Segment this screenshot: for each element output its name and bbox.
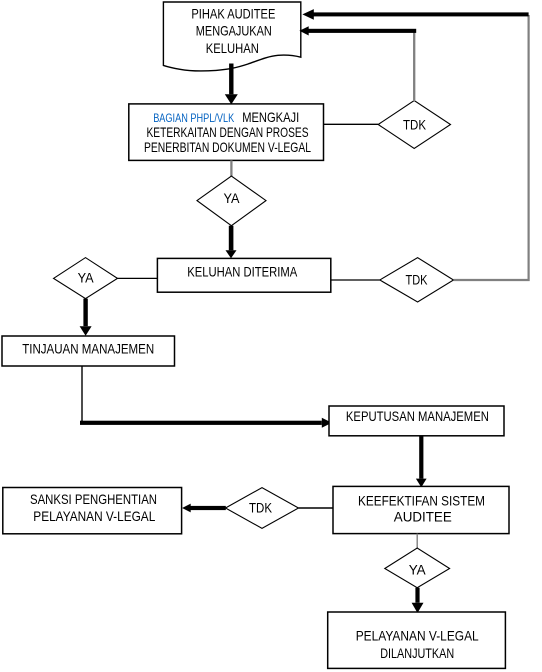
svg-text:KELUHAN DITERIMA: KELUHAN DITERIMA: [187, 263, 298, 279]
arrow: document down to review box (thick): [225, 64, 238, 105]
box: KEPUTUSAN MANAJEMEN: [329, 406, 504, 436]
decision diamond YA1: [197, 176, 266, 226]
svg-text:KEPUTUSAN MANAJEMEN: KEPUTUSAN MANAJEMEN: [346, 408, 489, 424]
arrow: KEPUTUSAN down to KEEFEKTIFAN (thick): [416, 436, 427, 488]
box: SANKSI PENGHENTIAN PELAYANAN V-LEGAL: [3, 488, 182, 534]
decision diamond TDK1: [378, 101, 450, 149]
svg-text:AUDITEE: AUDITEE: [394, 509, 452, 525]
decision diamond YA2: [54, 258, 118, 299]
box: TINJAUAN MANAJEMEN: [2, 336, 175, 366]
arrow: loop back into document, second from top (thick): [299, 26, 416, 35]
svg-text:YA: YA: [78, 269, 95, 285]
decision diamond YA3: [385, 548, 450, 588]
svg-text:YA: YA: [224, 190, 241, 206]
svg-text:KELUHAN: KELUHAN: [206, 40, 259, 56]
wire: KEEFEKTIFAN bottom to YA3 (gray): [416, 534, 418, 548]
box: KEEFEKTIFAN SISTEM AUDITEE: [333, 486, 509, 533]
svg-text:MENGKAJI: MENGKAJI: [242, 109, 299, 125]
wire: TINJAUAN MANAJEMEN bottom down: [81, 366, 83, 422]
svg-text:PENERBITAN DOKUMEN V-LEGAL: PENERBITAN DOKUMEN V-LEGAL: [144, 139, 311, 155]
svg-text:TINJAUAN MANAJEMEN: TINJAUAN MANAJEMEN: [22, 340, 154, 356]
svg-text:PELAYANAN V-LEGAL: PELAYANAN V-LEGAL: [33, 508, 155, 524]
wire: TDK3 to KEEFEKTIFAN box: [299, 507, 334, 509]
svg-text:TDK: TDK: [403, 116, 427, 132]
svg-text:TDK: TDK: [406, 272, 429, 288]
box: PELAYANAN V-LEGAL DILANJUTKAN: [328, 612, 506, 668]
svg-text:KEEFEKTIFAN SISTEM: KEEFEKTIFAN SISTEM: [358, 493, 485, 509]
box: KELUHAN DITERIMA: [157, 258, 330, 292]
wire: TDK2 right loop to top right (gray): [454, 15, 529, 280]
svg-text:PELAYANAN V-LEGAL: PELAYANAN V-LEGAL: [356, 627, 479, 643]
wire: YA2 to KELUHAN DITERIMA: [118, 277, 158, 279]
decision diamond TDK2: [380, 258, 454, 302]
svg-text:DILANJUTKAN: DILANJUTKAN: [380, 645, 454, 661]
arrow: YA1 down to KELUHAN DITERIMA (thick): [226, 226, 237, 259]
arrow: loop back into document, topmost (thick): [302, 9, 528, 20]
wire: KELUHAN DITERIMA to TDK2: [331, 279, 380, 281]
decision diamond TDK3: [226, 488, 299, 529]
svg-text:MENGAJUKAN: MENGAJUKAN: [196, 23, 272, 39]
document shape: PIHAK AUDITEE MENGAJUKAN KELUHAN: [163, 2, 300, 71]
svg-text:SANKSI PENGHENTIAN: SANKSI PENGHENTIAN: [30, 491, 157, 507]
arrow: YA3 down to PELAYANAN box (thick): [412, 588, 424, 613]
wire: TDK1 top up to loop (gray): [413, 31, 415, 101]
arrow: TDK3 to SANKSI box (thick): [182, 504, 226, 513]
wire: review box bottom to YA1 (gray): [230, 160, 232, 176]
svg-text:KETERKAITAN DENGAN PROSES: KETERKAITAN DENGAN PROSES: [147, 124, 309, 140]
svg-text:YA: YA: [409, 561, 427, 577]
box: BAGIAN PHPL/VLK MENGKAJI KETERKAITAN DENGAN PROSES PENERBITAN DOKUMEN V-LEGAL: [129, 104, 324, 160]
wire: review box to TDK1: [324, 123, 378, 125]
arrow: YA2 down to TINJAUAN MANAJEMEN (thick): [80, 299, 92, 336]
svg-text:PIHAK AUDITEE: PIHAK AUDITEE: [191, 6, 275, 22]
svg-text:TDK: TDK: [249, 499, 273, 515]
arrow: across to KEPUTUSAN MANAJEMEN (thick): [80, 418, 332, 428]
svg-text:BAGIAN PHPL/VLK: BAGIAN PHPL/VLK: [153, 111, 234, 125]
